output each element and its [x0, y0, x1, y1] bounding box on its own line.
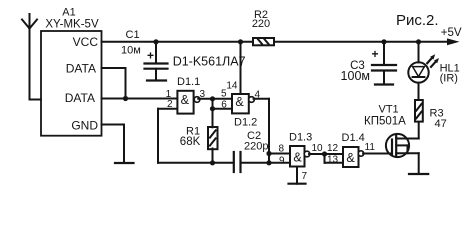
svg-text:+: + — [372, 47, 379, 61]
svg-text:10м: 10м — [121, 45, 141, 57]
svg-text:47: 47 — [435, 118, 447, 130]
svg-text:VT1: VT1 — [379, 103, 399, 115]
svg-text:КП501А: КП501А — [364, 116, 406, 128]
svg-text:VCC: VCC — [73, 35, 99, 49]
svg-text:D1.1: D1.1 — [177, 76, 200, 88]
svg-text:13: 13 — [327, 154, 339, 165]
svg-text:DATA: DATA — [66, 62, 96, 76]
svg-text:&: & — [293, 151, 302, 165]
svg-text:14: 14 — [226, 81, 238, 92]
svg-text:D1.4: D1.4 — [342, 132, 365, 144]
svg-text:XY-MK-5V: XY-MK-5V — [45, 19, 99, 31]
svg-text:(IR): (IR) — [440, 73, 458, 85]
svg-text:11: 11 — [365, 142, 376, 153]
svg-text:&: & — [181, 93, 190, 107]
svg-text:A1: A1 — [62, 7, 75, 19]
svg-text:&: & — [346, 151, 355, 165]
svg-text:12: 12 — [327, 143, 339, 154]
svg-text:4: 4 — [255, 90, 261, 101]
svg-text:D1.3: D1.3 — [289, 132, 312, 144]
svg-text:C1: C1 — [126, 29, 140, 41]
svg-text:9: 9 — [279, 155, 285, 166]
svg-text:68K: 68K — [180, 136, 201, 148]
svg-text:GND: GND — [71, 119, 98, 133]
svg-text:220: 220 — [252, 18, 270, 30]
svg-text:10: 10 — [312, 143, 324, 154]
svg-text:D1-K561ЛА7: D1-K561ЛА7 — [173, 55, 246, 69]
svg-text:2: 2 — [167, 99, 173, 110]
svg-text:3: 3 — [200, 89, 206, 100]
svg-text:DATA: DATA — [65, 91, 95, 105]
svg-text:6: 6 — [221, 100, 227, 111]
svg-text:220p: 220p — [244, 141, 268, 153]
svg-text:+5V: +5V — [441, 27, 462, 39]
svg-text:+: + — [147, 49, 154, 63]
svg-text:100м: 100м — [341, 69, 370, 83]
svg-text:Рис.2.: Рис.2. — [396, 12, 439, 29]
svg-text:&: & — [235, 95, 244, 109]
svg-text:8: 8 — [278, 143, 284, 154]
svg-text:D1.2: D1.2 — [234, 116, 257, 128]
svg-text:7: 7 — [302, 171, 308, 182]
